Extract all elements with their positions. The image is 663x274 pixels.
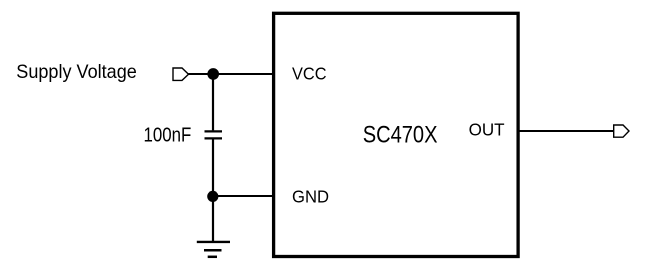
svg-text:GND: GND [292, 186, 329, 206]
svg-text:OUT: OUT [469, 119, 505, 139]
input port P1 Supply Voltage [173, 68, 189, 80]
svg-text:SC470X: SC470X [363, 121, 438, 148]
wire input port to VCC pin [189, 73, 274, 75]
svg-text:Supply Voltage: Supply Voltage [16, 61, 137, 83]
wire capacitor down to ground [212, 139, 214, 242]
ic U1 SC470X body [274, 13, 518, 256]
svg-text:100nF: 100nF [144, 125, 192, 147]
wire GND pin horizontal [213, 195, 274, 197]
junction node GND [207, 191, 218, 202]
ground symbol [197, 242, 230, 257]
capacitor C1 100nF [205, 131, 223, 138]
wire VCC node down to capacitor [212, 74, 214, 130]
output port P2 OUT [614, 125, 629, 137]
wire OUT pin to output port [518, 130, 614, 132]
svg-text:VCC: VCC [292, 64, 327, 84]
junction node VCC [207, 68, 219, 80]
